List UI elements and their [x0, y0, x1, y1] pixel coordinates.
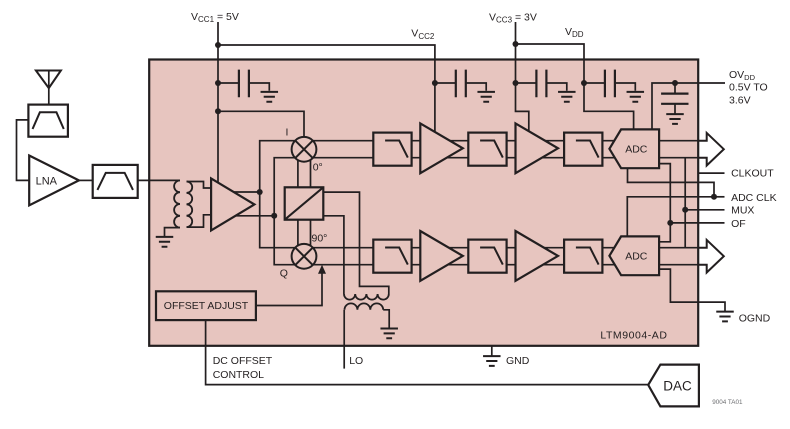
svg-text:3.6V: 3.6V	[729, 94, 751, 106]
svg-text:DAC: DAC	[663, 378, 692, 393]
svg-text:DC OFFSET: DC OFFSET	[213, 355, 273, 367]
svg-text:CLKOUT: CLKOUT	[731, 168, 774, 180]
svg-text:LO: LO	[349, 355, 363, 367]
svg-text:GND: GND	[506, 355, 530, 367]
svg-text:0°: 0°	[313, 162, 323, 174]
svg-text:I: I	[286, 127, 289, 139]
svg-text:LNA: LNA	[36, 175, 58, 187]
svg-text:OGND: OGND	[739, 313, 771, 325]
svg-text:OF: OF	[731, 218, 746, 230]
svg-text:Q: Q	[280, 268, 288, 280]
svg-text:0.5V TO: 0.5V TO	[729, 82, 768, 94]
svg-text:9004 TA01: 9004 TA01	[712, 399, 743, 406]
svg-text:ADC: ADC	[625, 144, 648, 156]
svg-text:CONTROL: CONTROL	[213, 369, 264, 381]
svg-text:OFFSET ADJUST: OFFSET ADJUST	[164, 300, 249, 312]
svg-text:90°: 90°	[312, 232, 328, 244]
svg-text:ADC CLK: ADC CLK	[731, 192, 777, 204]
svg-text:MUX: MUX	[731, 205, 754, 217]
svg-text:ADC: ADC	[625, 251, 648, 263]
svg-text:LTM9004-AD: LTM9004-AD	[600, 330, 667, 342]
